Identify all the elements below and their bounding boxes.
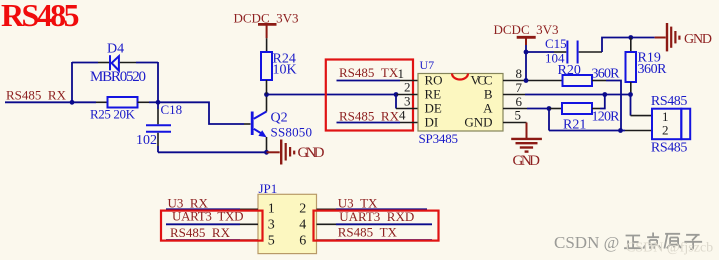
svg-text:RO: RO <box>425 72 443 87</box>
node Q2 collector junction <box>264 92 269 97</box>
ground GND top right <box>655 37 666 39</box>
resistor R20 <box>563 75 593 86</box>
svg-text:RS485 RX: RS485 RX <box>170 225 231 240</box>
svg-text:5: 5 <box>268 234 275 249</box>
node A/R20 junction <box>618 128 623 133</box>
node pin8 junction <box>524 78 529 83</box>
wire Q2 emitter stub <box>266 137 268 152</box>
svg-text:CSDN @: CSDN @ <box>554 233 619 252</box>
wire bottom to emitter <box>158 151 267 153</box>
capacitor C15 <box>567 41 577 64</box>
svg-text:CSDN @fjszcb: CSDN @fjszcb <box>626 241 713 256</box>
svg-text:VCC: VCC <box>471 72 493 87</box>
svg-text:3: 3 <box>268 218 275 233</box>
resistor R21 <box>562 103 592 114</box>
svg-text:RS485 TX: RS485 TX <box>338 224 398 239</box>
wire pin below R24 <box>266 80 268 95</box>
wire R19 lower pin <box>630 82 632 95</box>
svg-text:JP1: JP1 <box>259 181 278 196</box>
wire R21 up to B <box>592 108 600 110</box>
wire D4 top right <box>120 62 136 64</box>
resistor R19 <box>630 38 632 53</box>
wire C18 lower pin <box>157 133 159 146</box>
svg-text:360R: 360R <box>592 67 621 82</box>
svg-text:DI: DI <box>425 114 439 129</box>
svg-text:RS485: RS485 <box>651 94 688 109</box>
wire pin3 stub <box>396 108 418 110</box>
wire R20 to A node <box>606 81 621 131</box>
node Q2 emitter junction <box>264 150 269 155</box>
resistor R24 <box>261 52 272 80</box>
svg-text:R20: R20 <box>558 63 581 78</box>
svg-text:RS485 RX: RS485 RX <box>339 109 400 124</box>
wire power to pin8 <box>525 45 527 81</box>
wire JP1 pin3 <box>166 223 240 225</box>
wire to C15 <box>526 51 554 53</box>
svg-text:3: 3 <box>404 94 411 109</box>
wire pin6 to R21 <box>549 108 562 110</box>
svg-text:DE: DE <box>425 100 442 115</box>
capacitor C18 <box>146 125 171 132</box>
wire C18 node to Q2 base <box>158 102 244 124</box>
wire R25 to C18 node <box>149 101 158 103</box>
svg-text:GND: GND <box>298 145 325 161</box>
svg-text:R25 20K: R25 20K <box>90 107 136 122</box>
wire pin8 <box>503 80 563 82</box>
svg-text:RS485 TX: RS485 TX <box>339 65 399 80</box>
node B/R19/connector junction <box>628 92 633 97</box>
svg-text:Q2: Q2 <box>271 111 288 126</box>
wire R20 right pin <box>592 80 606 82</box>
ground GND below pin5 <box>526 123 528 139</box>
wire pin4 row <box>337 122 401 124</box>
red highlight box left <box>161 211 263 241</box>
transistor Q2 <box>251 112 254 136</box>
red arc marker on U7 <box>452 74 468 80</box>
wire connector pin2 <box>625 130 652 132</box>
node pin2/pin3 tie <box>394 92 399 97</box>
wire pin6 to node <box>527 108 549 110</box>
wire D4 left vertical <box>71 62 73 102</box>
wire pin left of R25 <box>96 101 108 103</box>
svg-text:D4: D4 <box>107 42 124 57</box>
svg-text:1: 1 <box>662 109 669 124</box>
svg-text:C15: C15 <box>545 36 567 51</box>
wire pin right of R25 <box>138 101 150 103</box>
svg-text:GND: GND <box>684 32 712 47</box>
node top rail junction <box>628 35 633 40</box>
svg-text:RS485 RX: RS485 RX <box>6 88 67 103</box>
svg-text:10K: 10K <box>273 63 297 78</box>
red highlight box right <box>314 211 439 241</box>
svg-text:A: A <box>483 100 493 115</box>
svg-text:C18: C18 <box>161 102 183 117</box>
svg-text:102: 102 <box>136 133 157 148</box>
red highlight box TX/RX <box>326 60 413 131</box>
svg-text:GND: GND <box>464 114 492 129</box>
wire pin1 row <box>337 80 401 82</box>
wire pin6 stub <box>503 108 527 110</box>
wire tie vertical <box>395 95 397 109</box>
svg-text:360R: 360R <box>638 62 668 77</box>
wire B net <box>525 94 631 96</box>
svg-text:DCDC 3V3: DCDC 3V3 <box>494 22 559 37</box>
svg-text:1: 1 <box>268 202 275 217</box>
svg-text:7: 7 <box>516 80 523 95</box>
wire JP1 pin2 <box>317 208 337 210</box>
wire JP1 pin5 <box>166 239 240 241</box>
wire Q2 collector stub <box>266 95 268 112</box>
wire JP1 pin1 <box>166 208 240 210</box>
svg-text:8: 8 <box>516 66 523 81</box>
svg-text:RE: RE <box>425 86 442 101</box>
svg-text:B: B <box>484 86 493 101</box>
wire connector pin1 from B <box>630 95 632 116</box>
wire A net row <box>549 130 625 132</box>
svg-text:2: 2 <box>404 80 411 95</box>
wire JP1 pin4 <box>317 223 337 225</box>
node pin6 junction <box>547 106 552 111</box>
svg-text:GND: GND <box>513 153 541 169</box>
wire A net drop <box>548 109 550 131</box>
op-amp U7 body SP3485 <box>418 74 503 132</box>
diode D4 <box>109 55 111 70</box>
svg-text:RS485: RS485 <box>1 0 80 33</box>
ground GND at Q2 <box>267 151 280 153</box>
wire C15 right pin <box>579 51 602 53</box>
wire D4 top left <box>72 62 98 64</box>
svg-text:SP3485: SP3485 <box>419 131 459 146</box>
wire pin2 stub <box>396 94 418 96</box>
svg-text:2: 2 <box>299 202 306 217</box>
wire D4 right vertical <box>157 62 159 102</box>
node C18 junction <box>156 100 161 105</box>
node power/C15 branch <box>524 50 529 55</box>
resistor R25 <box>108 97 138 108</box>
svg-text:U7: U7 <box>420 58 435 72</box>
wire pin7 stub <box>503 94 525 96</box>
svg-text:RS485: RS485 <box>651 140 688 155</box>
svg-text:SS8050: SS8050 <box>271 125 313 140</box>
svg-text:4: 4 <box>299 218 306 233</box>
node A junction left <box>70 100 75 105</box>
wire C18 upper pin <box>157 102 159 109</box>
wire row2 collector to pin2 <box>267 94 397 96</box>
wire pin above R24 <box>266 38 268 52</box>
wire JP1 pin6 <box>317 239 337 241</box>
node R21/B junction <box>602 92 607 97</box>
svg-text:120R: 120R <box>592 109 621 124</box>
svg-text:5: 5 <box>515 108 522 123</box>
wire pin5 stub <box>503 122 527 124</box>
wire RS485_RX row <box>5 101 96 103</box>
svg-text:6: 6 <box>299 234 306 249</box>
svg-text:4: 4 <box>399 108 406 123</box>
wire C15 up to top rail <box>602 38 655 53</box>
svg-text:2: 2 <box>662 123 669 138</box>
svg-text:MBR0520: MBR0520 <box>90 69 146 85</box>
